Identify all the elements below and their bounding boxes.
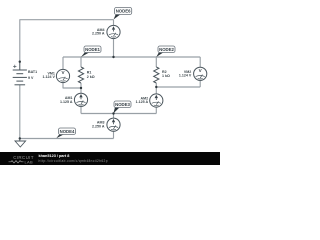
ammeter AM2 xyxy=(150,94,163,107)
junction battery top terminal xyxy=(19,61,21,63)
svg-text:BAT1: BAT1 xyxy=(28,70,37,74)
wire AM2 top lead xyxy=(155,87,157,94)
wire R2 bottom lead xyxy=(155,83,157,87)
svg-text:1.124 V: 1.124 V xyxy=(43,75,56,79)
wire AM3 bottom lead xyxy=(113,131,115,139)
wire right interconnect xyxy=(156,86,200,88)
resistor R1 xyxy=(78,67,83,83)
svg-text:1.125 A: 1.125 A xyxy=(60,100,73,104)
svg-text:1.125 A: 1.125 A xyxy=(136,100,149,104)
svg-text:2.250 A: 2.250 A xyxy=(92,124,105,128)
banner logo CIRCUIT LAB xyxy=(13,155,34,164)
node NODE2 xyxy=(156,46,175,57)
wire AM1 top lead xyxy=(80,88,82,93)
battery BAT1 xyxy=(13,62,27,85)
battery plus sign xyxy=(13,65,16,68)
wire VM1 branch top xyxy=(62,57,64,69)
wire VM1 branch bottom xyxy=(63,83,81,88)
svg-text:R1: R1 xyxy=(87,71,92,75)
junction battery bottom / ground xyxy=(19,137,21,139)
junction NODE3 at bottom-mid rail xyxy=(112,112,114,114)
svg-text:http://circuitlab.com/c/qmb48n: http://circuitlab.com/c/qmb48nc42h62p xyxy=(39,159,108,163)
wire bottom-left rail xyxy=(20,138,114,140)
svg-text:NODE2: NODE2 xyxy=(159,47,174,52)
wire AM4 bottom lead xyxy=(113,39,115,57)
node NODE1 xyxy=(81,46,101,57)
voltmeter VM2 xyxy=(194,67,207,80)
wire AM4 top lead xyxy=(113,20,115,26)
svg-text:NODE3: NODE3 xyxy=(115,102,130,107)
svg-text:1.124 V: 1.124 V xyxy=(179,73,192,77)
svg-text:1 kΩ: 1 kΩ xyxy=(162,74,170,78)
voltmeter VM1 xyxy=(56,69,69,82)
ammeter AM1 xyxy=(74,93,87,106)
wire bottom-mid rail xyxy=(81,113,156,115)
svg-text:NODE6: NODE6 xyxy=(116,9,131,14)
ammeter AM3 xyxy=(107,118,120,131)
svg-text:NODE4: NODE4 xyxy=(60,129,75,134)
junction R2-VM2 interconnect xyxy=(155,86,157,88)
ammeter AM4 xyxy=(107,25,120,38)
wire AM2 bottom lead xyxy=(155,107,157,114)
wire R1 bottom lead xyxy=(80,83,82,88)
wire R2 top lead xyxy=(155,57,157,67)
svg-text:khan5123 / part 8: khan5123 / part 8 xyxy=(39,154,70,158)
wire AM3 top lead xyxy=(113,114,115,119)
banner xyxy=(0,152,220,165)
resistor R2 xyxy=(154,67,159,83)
svg-text:2 kΩ: 2 kΩ xyxy=(87,75,95,79)
svg-text:R2: R2 xyxy=(162,70,167,74)
node NODE6 xyxy=(114,8,132,20)
wire VM2 branch bottom xyxy=(199,80,201,87)
wire top rail xyxy=(20,20,114,62)
svg-text:9 V: 9 V xyxy=(28,76,34,80)
wire R1 top lead xyxy=(80,57,82,67)
junction VM1-R1 interconnect xyxy=(80,87,82,89)
node NODE4 xyxy=(56,128,75,138)
svg-text:LAB: LAB xyxy=(25,159,33,164)
node NODE3 xyxy=(113,101,131,113)
wire AM1 bottom lead xyxy=(80,106,82,113)
ground xyxy=(15,139,26,148)
svg-text:2.250 A: 2.250 A xyxy=(92,32,105,36)
banner logo resistor zigzag xyxy=(9,161,24,163)
wire left rail lower xyxy=(19,85,21,139)
junction AM4 bottom at mid rail xyxy=(112,56,114,58)
svg-text:NODE1: NODE1 xyxy=(85,47,100,52)
wire mid rail xyxy=(63,56,200,58)
wire VM2 branch top xyxy=(199,57,201,67)
